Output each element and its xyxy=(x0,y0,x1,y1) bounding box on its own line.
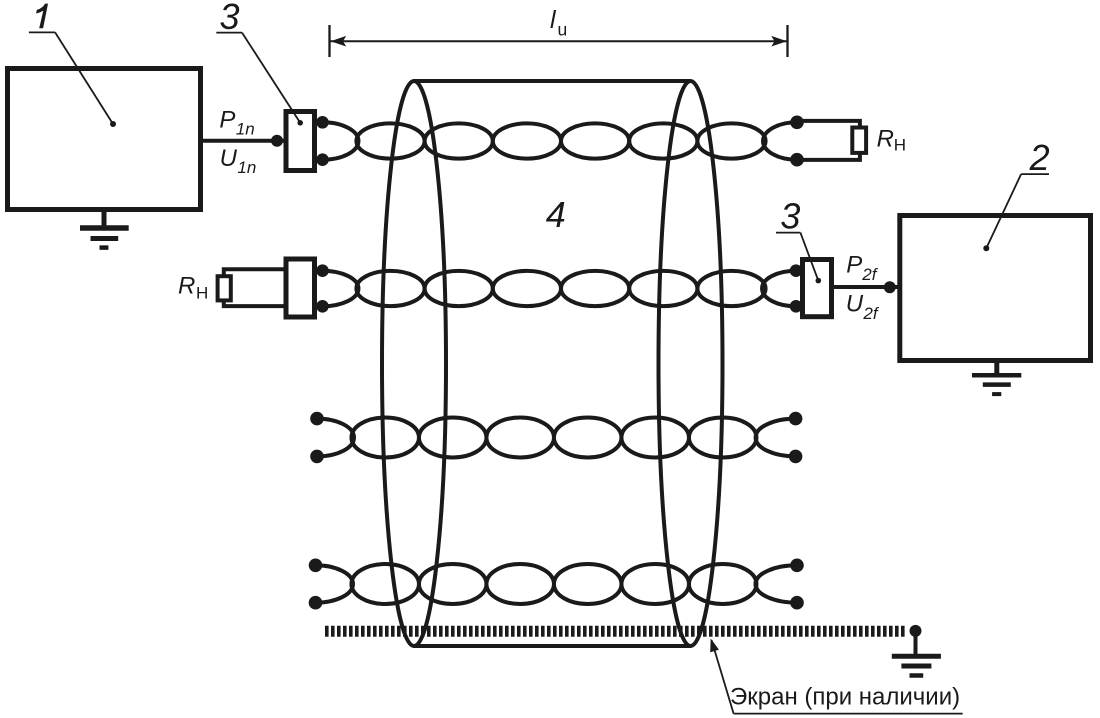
wire: right half-arc row4 xyxy=(755,565,797,602)
label screen (Экран) with arrow xyxy=(710,639,963,714)
svg-text:U: U xyxy=(220,145,238,172)
wire: right half-arc row3 xyxy=(756,419,796,457)
wire: right half-arc row1 xyxy=(763,122,797,159)
node dots row4 left xyxy=(309,559,323,573)
svg-text:2f: 2f xyxy=(862,304,879,323)
node P2f dot xyxy=(884,281,896,293)
cable sheath 4: right end ellipse xyxy=(659,81,723,646)
svg-text:Экран (при наличии): Экран (при наличии) xyxy=(730,684,960,711)
node dots row3 right xyxy=(789,412,803,426)
load resistor RH (top right) xyxy=(797,121,860,160)
label RH (left) xyxy=(178,272,208,302)
dimension line l_u xyxy=(330,25,788,57)
svg-text:4: 4 xyxy=(546,194,566,235)
label U2f xyxy=(846,291,880,324)
cable sheath 4: top line xyxy=(414,79,691,83)
balun output dots row2 left xyxy=(316,264,329,277)
wire: left half-arc row1 xyxy=(323,122,359,159)
wire: right half-arc row2 xyxy=(762,271,796,307)
svg-text:P: P xyxy=(219,107,235,134)
balun 3 (top left) xyxy=(286,112,315,171)
wire: left half-arc row4 xyxy=(316,565,354,602)
ground (box 1) xyxy=(80,212,129,248)
svg-text:U: U xyxy=(846,291,864,318)
svg-text:2: 2 xyxy=(1029,137,1050,178)
ground (screen) xyxy=(892,656,941,675)
label P1n xyxy=(219,107,254,139)
wire: screen ground stem xyxy=(914,631,918,656)
label 3 (right) xyxy=(776,196,821,284)
label U1n xyxy=(220,145,257,177)
balun (row 2 right) xyxy=(803,260,832,317)
svg-text:1n: 1n xyxy=(237,158,256,177)
wire: twist ellipses row2 xyxy=(356,271,424,306)
svg-text:1n: 1n xyxy=(236,120,255,139)
svg-text:2f: 2f xyxy=(861,265,878,284)
box 2 (receiver) xyxy=(900,216,1091,361)
label l_u xyxy=(550,6,567,40)
wire: twist ellipses row1 xyxy=(356,123,424,158)
node: screen ground dot xyxy=(910,625,922,637)
cable sheath 4: left end ellipse xyxy=(382,81,446,646)
wire: twist ellipses row3 xyxy=(351,418,419,458)
node dots row4 right xyxy=(790,559,804,573)
label 1 xyxy=(29,4,116,127)
svg-text:3: 3 xyxy=(780,196,800,237)
label 2 xyxy=(983,137,1049,251)
svg-text:H: H xyxy=(894,136,906,155)
svg-text:u: u xyxy=(558,20,568,40)
wire: twist ellipses row4 xyxy=(351,564,419,604)
node dots row2 right xyxy=(790,264,803,277)
wire: left half-arc row3 xyxy=(317,419,354,457)
label RH (top right) xyxy=(877,125,906,154)
wire P1n (box1 to balun) xyxy=(202,139,284,143)
node P1n dot xyxy=(271,135,283,147)
twisted pair row 2 xyxy=(323,271,797,307)
node dots row3 left xyxy=(310,412,324,426)
twisted pair row 4 xyxy=(309,559,804,610)
svg-text:P: P xyxy=(846,251,862,278)
wire: left half-arc row2 xyxy=(323,271,359,307)
svg-text:R: R xyxy=(178,272,195,299)
screen (dashed line) xyxy=(325,626,906,637)
wire P2f (balun to box2) xyxy=(834,285,898,289)
load resistor RH (row 2 left) xyxy=(224,269,284,306)
box 1 (generator) xyxy=(8,69,201,210)
svg-text:3: 3 xyxy=(220,0,240,37)
label P2f xyxy=(846,251,878,284)
balun 3 output dots xyxy=(316,116,329,129)
node dots row1 right xyxy=(790,116,804,130)
twisted pair row 1 xyxy=(323,122,798,159)
svg-text:l: l xyxy=(550,6,557,34)
svg-text:H: H xyxy=(196,283,208,302)
cable sheath 4: bottom line xyxy=(414,644,691,648)
twisted pair row 3 xyxy=(310,412,802,463)
ground (box 2) xyxy=(972,363,1021,394)
label 3 (top left) xyxy=(216,0,303,126)
svg-text:R: R xyxy=(877,125,894,152)
balun (row 2 left) xyxy=(286,259,315,317)
